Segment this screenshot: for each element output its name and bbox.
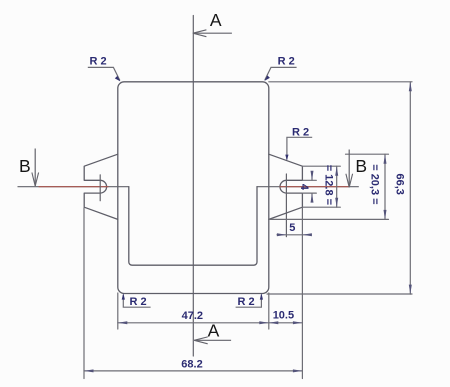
R2 label top-left xyxy=(88,56,121,82)
R2 label bottom-left xyxy=(122,293,151,308)
svg-text:47.2: 47.2 xyxy=(182,310,203,322)
extension line top edge to 66.3 xyxy=(269,81,412,83)
extension line body left edge down xyxy=(117,293,119,329)
svg-text:= 20,3 =: = 20,3 = xyxy=(369,164,381,204)
svg-text:5: 5 xyxy=(289,222,295,234)
svg-text:R 2: R 2 xyxy=(89,56,106,68)
svg-text:R 2: R 2 xyxy=(278,56,295,68)
extension line bottom edge to 66.3 xyxy=(267,293,412,295)
svg-text:B: B xyxy=(19,156,31,176)
arrowhead 68.2 right xyxy=(293,369,303,372)
arrowhead 20.3 bottom xyxy=(384,210,387,220)
arrowhead 10.5 right xyxy=(293,321,303,324)
extension line left tab tip down to 68.2 xyxy=(83,208,85,379)
arrowhead 4 bottom xyxy=(311,193,314,203)
arrowhead 20.3 top xyxy=(384,154,387,164)
extension line slot top edge to 4 dim xyxy=(302,179,316,181)
arrowhead 66.3 bottom xyxy=(409,285,412,295)
dimension line 68.2 xyxy=(84,370,302,372)
extension line tab face top to 12.8 xyxy=(302,165,340,167)
right slot vertical centerline + extension to 5 dim xyxy=(285,174,287,237)
R2 label bottom-right xyxy=(236,293,263,308)
svg-text:R 2: R 2 xyxy=(292,126,309,138)
svg-text:A: A xyxy=(210,10,222,30)
R2 label right-middle xyxy=(285,126,312,160)
extension line right tab tip down to 68.2 xyxy=(301,208,303,379)
extension line tab face bottom to 12.8 xyxy=(302,206,340,208)
svg-text:66,3: 66,3 xyxy=(394,173,406,194)
section arrow B right xyxy=(346,150,353,188)
dimension line 4 (outside arrows, vertical) xyxy=(311,172,313,180)
section arrow A bottom xyxy=(194,337,231,344)
dimension line 66.3 xyxy=(409,82,411,294)
red section line left xyxy=(39,186,108,188)
body outline rounded rectangle xyxy=(118,82,269,294)
svg-text:4: 4 xyxy=(298,184,310,191)
left dovetail tab with slot xyxy=(84,154,118,219)
arrowhead 68.2 left xyxy=(84,369,94,372)
arrowhead 47.2 right xyxy=(259,321,269,324)
arrowhead 4 top xyxy=(311,171,314,181)
svg-text:68.2: 68.2 xyxy=(181,359,202,371)
svg-text:B: B xyxy=(355,156,367,176)
svg-text:R 2: R 2 xyxy=(237,296,254,308)
svg-text:R 2: R 2 xyxy=(129,296,146,308)
svg-text:A: A xyxy=(208,321,220,341)
dimension line 47.2 and 10.5 xyxy=(118,322,303,324)
right horizontal centerline through slot xyxy=(257,186,358,188)
red section line right xyxy=(280,186,349,188)
dimension line 12.8 xyxy=(336,166,338,207)
section arrow B left xyxy=(32,149,39,187)
arrowhead 12.8 bottom xyxy=(335,198,338,208)
section arrow A top xyxy=(193,30,232,37)
arrowhead 5 left xyxy=(277,233,287,236)
dimension line 20.3 xyxy=(384,154,386,219)
arrowhead 12.8 top xyxy=(335,166,338,176)
extension line tab top to 20.3 xyxy=(346,153,389,155)
inner cavity U channel xyxy=(129,187,257,266)
svg-text:10.5: 10.5 xyxy=(273,310,294,322)
arrowhead 66.3 top xyxy=(409,82,412,92)
centerline A vertical xyxy=(192,16,194,357)
extension line tab bottom to 20.3 xyxy=(270,218,389,220)
arrowhead 47.2 left xyxy=(118,321,128,324)
svg-text:= 12.8 =: = 12.8 = xyxy=(323,165,335,205)
arrowhead 5 right xyxy=(302,233,312,236)
left horizontal centerline through slot xyxy=(18,186,129,188)
extension line slot bottom edge to 4 dim xyxy=(302,192,316,194)
right dovetail tab with slot xyxy=(269,154,303,219)
dimension line 5 (outside arrows) xyxy=(277,234,311,236)
R2 label top-right xyxy=(264,56,296,81)
arrowhead 10.5 left xyxy=(269,321,279,324)
extension line body right edge down xyxy=(268,293,270,329)
left slot vertical centerline xyxy=(99,175,101,201)
